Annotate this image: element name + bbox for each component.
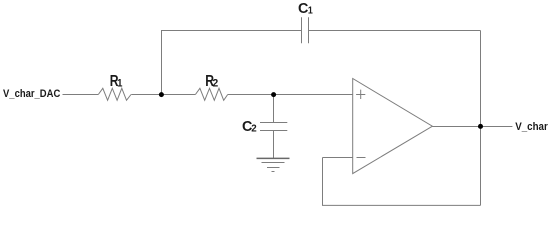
svg-text:1: 1 xyxy=(117,78,123,90)
svg-text:2: 2 xyxy=(251,123,257,134)
svg-text:V_char_DAC: V_char_DAC xyxy=(3,88,60,100)
svg-text:1: 1 xyxy=(308,5,313,16)
svg-text:2: 2 xyxy=(213,77,219,89)
svg-text:V_char: V_char xyxy=(515,121,548,133)
